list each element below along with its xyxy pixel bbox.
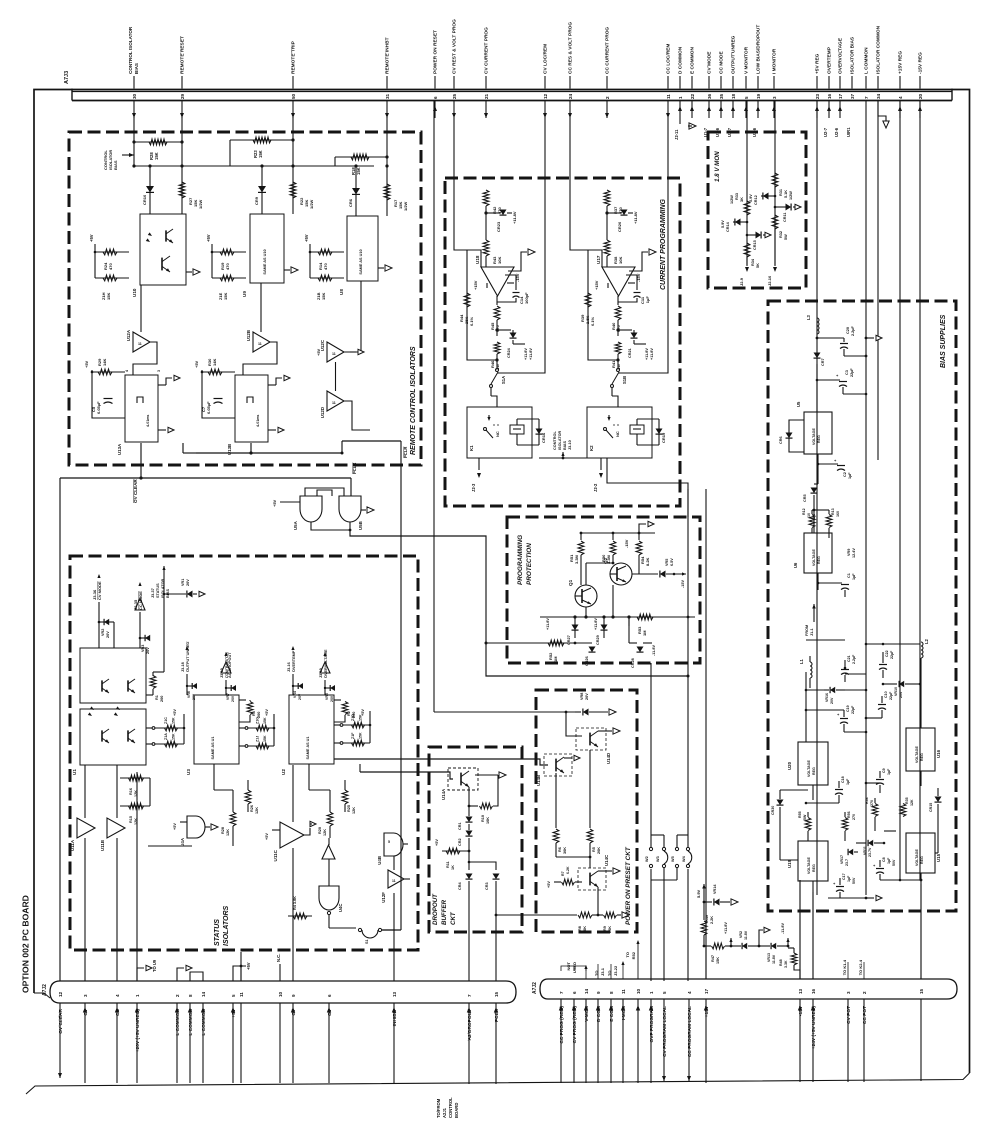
label TO R52 (637, 944, 639, 979)
box CURRENT PROGRAMMING (445, 178, 680, 506)
wire J2-9 (746, 257, 748, 266)
svg-text:36: 36 (707, 93, 712, 99)
svg-text:R28: R28 (221, 827, 225, 834)
top signal I MONITOR pin 3 (773, 76, 775, 89)
svg-text:SAME AS U10: SAME AS U10 (263, 249, 267, 274)
transistor U14B (544, 754, 572, 776)
svg-text:Q1: Q1 (568, 579, 573, 586)
svg-text:U9: U9 (242, 291, 247, 297)
resistor R54 8.2K (638, 533, 640, 540)
svg-text:13: 13 (798, 988, 803, 994)
svg-text:S1B: S1B (622, 376, 627, 384)
transistor U14D (576, 728, 606, 750)
svg-text:C10: C10 (884, 691, 888, 698)
svg-text:3: 3 (846, 991, 851, 994)
svg-text:REG: REG (812, 767, 816, 775)
wire U4C out switch (328, 915, 330, 928)
arrow U9 out (284, 269, 290, 271)
svg-text:CC RES & VOLT PROG: CC RES & VOLT PROG (568, 22, 574, 74)
svg-text:ISOLATORS: ISOLATORS (223, 905, 230, 946)
arrow U4A out (205, 826, 210, 828)
resistor R53 1M (628, 617, 630, 626)
rail +5V REG (816, 101, 818, 896)
gate U4A (187, 816, 205, 838)
wire Q1 collector (585, 563, 587, 585)
svg-text:C18: C18 (841, 776, 845, 783)
resistor R36 270 (872, 804, 878, 817)
wire Q2 emitter base (626, 574, 652, 590)
diode CR4 (468, 851, 470, 870)
svg-text:OVP PROGRAM: OVP PROGRAM (649, 1006, 655, 1042)
top signal CV REST & VOLT PROG pin 25 (453, 76, 455, 89)
svg-text:9: 9 (596, 991, 601, 994)
stub pin 11 (240, 952, 242, 981)
one-shot U13A (125, 375, 158, 442)
rail ISOL COMMON (877, 101, 879, 461)
svg-text:15K: 15K (263, 735, 267, 742)
svg-text:15K: 15K (263, 717, 267, 724)
top signal OVERVOLTAGE pin 17 (839, 76, 841, 89)
svg-text:U8: U8 (339, 289, 344, 295)
op-amp U17 channel CC (606, 101, 608, 191)
svg-text:CR21: CR21 (628, 348, 632, 358)
svg-text:3.3M: 3.3M (574, 554, 579, 564)
wire U14A emitter (468, 787, 470, 806)
capacitor C2 1uF (817, 463, 819, 465)
arrow VR2 up (759, 930, 763, 946)
wire U14B U14D (563, 758, 565, 773)
inductor L3 (817, 318, 819, 334)
svg-text:15K: 15K (356, 167, 361, 175)
node row prog prot (540, 616, 695, 618)
jumper W5 W4 (677, 834, 688, 836)
svg-text:34: 34 (876, 93, 881, 99)
resistor R10 10K (469, 805, 478, 807)
svg-text:BIAS: BIAS (563, 440, 567, 450)
svg-text:+11.8V: +11.8V (546, 618, 550, 630)
svg-text:Z1C: Z1C (164, 717, 168, 724)
svg-text:10K: 10K (497, 257, 502, 264)
diode CR9 (261, 166, 263, 214)
svg-text:U19: U19 (787, 859, 792, 868)
svg-text:U12F: U12F (381, 892, 386, 903)
svg-text:1µF: 1µF (645, 296, 650, 304)
svg-text:NC: NC (495, 431, 500, 437)
svg-text:20V: 20V (298, 693, 302, 700)
svg-text:R26: R26 (250, 805, 254, 812)
capacitor C1 1uF (817, 582, 820, 585)
wire x486 to dropout (485, 118, 487, 190)
svg-text:CR20: CR20 (617, 221, 622, 232)
svg-text:R35: R35 (905, 797, 909, 804)
svg-text:CR19: CR19 (661, 432, 666, 443)
svg-text:CR7: CR7 (821, 358, 825, 366)
svg-text:U11C: U11C (273, 849, 278, 861)
svg-text:12K: 12K (323, 829, 327, 836)
svg-text:R15: R15 (129, 816, 133, 823)
svg-text:CR15: CR15 (929, 803, 933, 812)
resistor R52 1M (486, 642, 575, 644)
wire preset top (433, 101, 435, 713)
IC U2 SAME AS U1 (289, 695, 334, 764)
svg-text:U14D: U14D (606, 753, 611, 764)
svg-text:+5V: +5V (173, 709, 177, 716)
wire CV REST (454, 118, 467, 250)
svg-text:OPTION 002 PC BOARD: OPTION 002 PC BOARD (21, 895, 31, 993)
svg-text:VR14: VR14 (713, 884, 717, 894)
svg-text:CV PROGRAM LOCAL: CV PROGRAM LOCAL (662, 1006, 668, 1057)
svg-text:CR15: CR15 (753, 240, 757, 250)
svg-text:25: 25 (452, 93, 457, 99)
capacitor C20 2.2uF (817, 337, 844, 339)
svg-text:6.2K: 6.2K (566, 866, 570, 874)
svg-text:4: 4 (125, 370, 129, 372)
svg-text:TO K1-4: TO K1-4 (842, 959, 847, 975)
arrow U10 out (186, 271, 192, 273)
diode CR26 (575, 642, 592, 644)
svg-text:U18: U18 (475, 255, 480, 264)
svg-text:100pF: 100pF (524, 292, 529, 304)
svg-text:5K: 5K (756, 263, 760, 268)
svg-text:CR26: CR26 (585, 656, 589, 666)
svg-text:VOLTAGE: VOLTAGE (812, 549, 816, 566)
svg-text:U10: U10 (132, 288, 137, 297)
svg-text:D COMMON: D COMMON (678, 46, 684, 74)
svg-text:0.05µF: 0.05µF (206, 401, 211, 414)
wire R47 down (703, 946, 705, 979)
arrow U13A qbar (158, 429, 166, 431)
svg-text:+11.8V: +11.8V (645, 348, 649, 360)
svg-text:9: 9 (291, 994, 296, 997)
svg-text:16: 16 (827, 93, 832, 99)
wire status U2 outputs right (334, 759, 548, 765)
svg-text:CR23: CR23 (496, 221, 501, 232)
svg-text:C19: C19 (846, 705, 850, 712)
svg-text:Z1J: Z1J (256, 736, 260, 742)
svg-text:5W: 5W (803, 814, 807, 820)
svg-text:37: 37 (850, 93, 855, 99)
svg-text:CR10: CR10 (142, 194, 147, 205)
sheet bottom edge diagonal (26, 1073, 970, 1094)
bracket over pins 7 6 14 (561, 966, 586, 971)
svg-text:CV MODE: CV MODE (97, 581, 102, 600)
wire +15V pair (705, 489, 707, 979)
svg-text:15K: 15K (359, 732, 363, 739)
resistor R17 15K 1/2W (386, 166, 388, 216)
svg-text:14: 14 (584, 988, 589, 994)
svg-text:VOLTAGE: VOLTAGE (807, 760, 811, 777)
buffer U11A (77, 818, 95, 838)
buffer small up (322, 845, 335, 859)
resistor R25 12K (342, 790, 348, 804)
svg-text:11: 11 (239, 992, 244, 997)
svg-text:+5V: +5V (272, 499, 277, 507)
svg-text:FROM: FROM (805, 625, 809, 636)
top signal LOW BIAS/DROPOUT pin 19 (757, 76, 759, 89)
svg-text:R55: R55 (798, 811, 802, 818)
svg-text:5: 5 (231, 994, 236, 997)
resistor R27 15K 1/2W (181, 166, 183, 214)
svg-text:20V: 20V (146, 647, 150, 654)
svg-text:BOARD: BOARD (454, 1103, 459, 1118)
top signal POWER ON RESET pin 6 (434, 76, 436, 89)
resistor R32 5.1K (772, 215, 778, 229)
svg-text:+11.8V: +11.8V (594, 618, 598, 630)
svg-text:R6: R6 (558, 847, 562, 852)
svg-text:U12D: U12D (320, 407, 325, 418)
svg-text:REMOTE CONTROL ISOLATORS: REMOTE CONTROL ISOLATORS (410, 346, 417, 455)
svg-text:VR17: VR17 (840, 855, 844, 864)
svg-text:R56: R56 (847, 811, 851, 818)
gate U4B (384, 833, 403, 856)
label -11.8V arrow (786, 938, 789, 942)
svg-text:+5V: +5V (206, 234, 211, 242)
svg-text:K2: K2 (589, 445, 594, 451)
capacitor C9 1uF (876, 779, 884, 781)
svg-text:ISOLATOR COMMON: ISOLATOR COMMON (876, 25, 882, 74)
svg-text:L COMMON: L COMMON (864, 47, 870, 74)
svg-text:23.7V: 23.7V (868, 847, 872, 857)
top signal REMOTE INHBT pin 31 (386, 76, 388, 89)
rail L COMMON (865, 101, 867, 896)
svg-text:ISOLATOR BIAS: ISOLATOR BIAS (850, 36, 856, 74)
diode CR1 (468, 806, 470, 816)
svg-text:31: 31 (385, 93, 390, 99)
wire Q1 emitter down (585, 607, 587, 617)
relay K2 (587, 407, 652, 458)
svg-text:470: 470 (323, 263, 328, 270)
svg-text:16: 16 (811, 988, 816, 994)
svg-text:20K: 20K (608, 926, 612, 933)
svg-text:VR9: VR9 (847, 549, 851, 556)
svg-text:VR1: VR1 (181, 579, 185, 586)
svg-text:L COMMON: L COMMON (175, 1008, 181, 1035)
svg-text:CR16: CR16 (541, 432, 546, 443)
svg-text:20: 20 (918, 93, 923, 99)
svg-text:VR2: VR2 (101, 629, 105, 636)
svg-text:E COMMON: E COMMON (690, 47, 696, 74)
capacitor C8 1uF 50V (876, 868, 884, 870)
rail +15V (899, 101, 901, 881)
svg-text:C9: C9 (882, 768, 886, 773)
box STATUS ISOLATORS (70, 556, 418, 950)
svg-text:CC PROGRAM LOCAL: CC PROGRAM LOCAL (687, 1006, 693, 1057)
arrow OV CLEAR bottom (58, 1073, 62, 1078)
svg-text:U4B: U4B (377, 856, 382, 865)
svg-text:+5V: +5V (246, 962, 251, 970)
arrow latch out (361, 509, 366, 511)
svg-text:14: 14 (201, 991, 206, 997)
svg-text:12: 12 (543, 93, 548, 99)
svg-text:VR2: VR2 (739, 931, 743, 938)
svg-text:+5V: +5V (194, 360, 199, 368)
arrow U11C out (304, 828, 310, 835)
svg-text:20V: 20V (186, 579, 190, 586)
svg-text:U2-7: U2-7 (823, 127, 828, 137)
top signal +5V REG pin 23 (816, 76, 818, 89)
svg-text:BUFFER: BUFFER (441, 899, 448, 925)
svg-text:+11.8V: +11.8V (524, 348, 528, 360)
top signal OUTPUT UNREG pin 18 (732, 76, 734, 89)
svg-text:0.05µF: 0.05µF (96, 401, 101, 414)
svg-text:4: 4 (687, 991, 692, 994)
svg-text:+5V: +5V (84, 360, 89, 368)
svg-text:C2: C2 (843, 472, 847, 477)
svg-text:VR16: VR16 (825, 693, 829, 702)
svg-text:U20: U20 (787, 761, 792, 770)
svg-text:3K: 3K (740, 197, 744, 202)
svg-text:18: 18 (731, 93, 736, 99)
svg-text:1K: 1K (451, 865, 455, 870)
svg-text:20V: 20V (330, 695, 334, 702)
resistor R6 30K (555, 773, 557, 828)
svg-text:5: 5 (388, 840, 390, 844)
svg-text:TO/FROM: TO/FROM (436, 1098, 441, 1118)
regulator U19 (798, 841, 828, 881)
svg-text:BIAS: BIAS (134, 63, 139, 74)
svg-text:STATUS: STATUS (156, 583, 160, 598)
arrow U14C out (598, 870, 612, 872)
svg-text:CR5: CR5 (803, 494, 807, 502)
svg-text:R16: R16 (129, 788, 133, 795)
svg-text:U2: U2 (281, 769, 286, 775)
regulator U20 (798, 742, 828, 785)
svg-text:R52: R52 (631, 951, 636, 959)
svg-text:U15: U15 (936, 853, 941, 862)
svg-text:3: 3 (83, 994, 88, 997)
svg-text:CR1: CR1 (458, 822, 462, 830)
svg-text:8.2K: 8.2K (645, 557, 650, 566)
diode CR10 (149, 166, 151, 214)
svg-text:CR24: CR24 (507, 347, 511, 358)
svg-text:CR28: CR28 (631, 658, 635, 668)
svg-text:J3-1: J3-1 (600, 967, 605, 976)
svg-text:6.5V: 6.5V (670, 558, 674, 566)
wire status rail right (418, 556, 460, 630)
svg-text:+5V: +5V (265, 833, 269, 840)
svg-text:VOLTAGE: VOLTAGE (915, 746, 919, 763)
svg-text:11: 11 (666, 94, 671, 99)
svg-text:200: 200 (160, 696, 164, 702)
svg-text:J3-18: J3-18 (181, 662, 185, 672)
svg-text:R34: R34 (751, 258, 755, 266)
svg-text:+11.8V: +11.8V (512, 211, 517, 224)
svg-text:CURRENT PROGRAMMING: CURRENT PROGRAMMING (660, 198, 667, 290)
buffer U12F (388, 870, 404, 888)
svg-text:15K: 15K (716, 957, 720, 964)
svg-text:CONTROL: CONTROL (553, 431, 557, 450)
svg-text:DROPOUT: DROPOUT (432, 893, 439, 925)
svg-text:U6: U6 (793, 562, 798, 568)
svg-text:23: 23 (815, 93, 820, 99)
svg-text:J2-9: J2-9 (739, 277, 744, 286)
zener VR8 20V (583, 709, 589, 716)
svg-text:14K: 14K (212, 359, 217, 366)
svg-text:OVERVOLTAGE: OVERVOLTAGE (838, 37, 844, 74)
svg-text:V MONITOR: V MONITOR (744, 46, 750, 74)
svg-text:+5V: +5V (173, 823, 177, 830)
svg-text:12: 12 (58, 991, 63, 997)
resistor R15 12K (120, 805, 150, 807)
svg-text:C8: C8 (882, 857, 886, 862)
svg-text:10: 10 (807, 513, 811, 517)
zener VR13 (759, 945, 770, 947)
svg-text:VR7: VR7 (226, 693, 230, 700)
svg-text:R9: R9 (603, 926, 607, 931)
svg-text:PROTECTION: PROTECTION (526, 543, 533, 585)
regulator U16 (906, 728, 935, 771)
svg-text:13: 13 (392, 991, 397, 997)
wire OT to bar (328, 838, 330, 864)
wire mon right (774, 101, 776, 266)
svg-text:1µF: 1µF (887, 768, 891, 775)
svg-text:160: 160 (836, 511, 840, 517)
wire J2-10 (774, 229, 776, 266)
svg-text:R33: R33 (735, 193, 739, 200)
svg-text:+5V: +5V (89, 234, 94, 242)
svg-text:SAME AS U1: SAME AS U1 (306, 736, 310, 759)
svg-text:20V: 20V (899, 691, 903, 698)
svg-text:CONTROL ISOLATOR: CONTROL ISOLATOR (128, 26, 133, 74)
svg-text:270: 270 (870, 800, 874, 806)
wire J2-3 (478, 458, 480, 470)
svg-text:BIAS SUPPLIES: BIAS SUPPLIES (940, 314, 947, 368)
svg-text:REG: REG (817, 435, 821, 443)
svg-text:U4A: U4A (180, 837, 185, 847)
svg-text:4: 4 (115, 994, 120, 997)
svg-text:CC POT: CC POT (862, 1006, 868, 1024)
arrow U13B q (268, 384, 276, 386)
svg-text:19: 19 (756, 93, 761, 99)
svg-text:10: 10 (636, 988, 641, 994)
svg-text:L1: L1 (799, 658, 804, 664)
wire U1 inputs down (98, 622, 100, 648)
svg-text:CC PROG (REM): CC PROG (REM) (559, 1006, 565, 1044)
buffer U12B (260, 283, 262, 332)
resistor R1 200 (163, 648, 165, 672)
svg-text:CR14: CR14 (726, 221, 730, 232)
svg-text:STATUS: STATUS (214, 919, 221, 946)
resistor R16 12K (120, 777, 150, 779)
svg-text:CV PROG (REM): CV PROG (REM) (572, 1006, 578, 1044)
gate U4C nand (319, 886, 339, 910)
svg-text:15K: 15K (106, 293, 111, 300)
optocoupler U1 (80, 648, 146, 703)
op-amp U18 channel CV (485, 101, 487, 191)
svg-text:4-01ms: 4-01ms (146, 415, 150, 427)
svg-text:+5V: +5V (435, 839, 439, 846)
arrow U8 out (378, 267, 384, 269)
diode CR2 (468, 824, 470, 830)
svg-text:+11.8V: +11.8V (633, 211, 638, 224)
svg-text:CR30: CR30 (771, 806, 775, 815)
top signal CV LOC/REM pin 12 (544, 76, 546, 89)
svg-text:7: 7 (559, 991, 564, 994)
svg-text:8: 8 (609, 991, 614, 994)
buffer U12A (140, 285, 142, 332)
svg-text:1/2W: 1/2W (309, 199, 314, 209)
connector A7J2 left bar (50, 981, 516, 1003)
svg-text:50V: 50V (892, 859, 896, 866)
svg-text:CV CURRENT PROG: CV CURRENT PROG (484, 27, 490, 74)
top signal -15V REG pin 20 (919, 76, 921, 89)
zener VR17 (848, 849, 853, 855)
svg-text:7: 7 (467, 994, 472, 997)
svg-text:15K: 15K (154, 152, 159, 160)
net OV CLEAR (140, 443, 142, 478)
bus A7J3 bar (72, 100, 952, 102)
svg-text:11: 11 (332, 401, 336, 405)
